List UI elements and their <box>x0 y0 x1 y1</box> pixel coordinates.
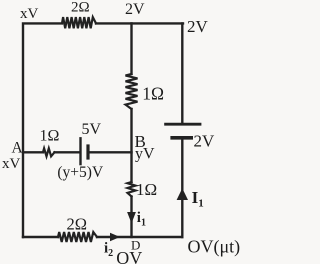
svg-text:2V: 2V <box>187 17 209 36</box>
wire bottom left segment <box>23 236 58 238</box>
battery B1 5V long plate <box>79 138 81 164</box>
wire right branch upper <box>181 23 183 122</box>
current arrow i2 <box>110 233 120 242</box>
resistor R3 1ohm A-B <box>43 148 55 156</box>
resistor R4 2ohm bottom <box>58 232 97 242</box>
svg-text:2Ω: 2Ω <box>71 0 90 16</box>
svg-text:A: A <box>12 139 24 156</box>
wire middle branch bottom <box>130 197 132 238</box>
svg-text:1Ω: 1Ω <box>136 180 157 199</box>
svg-text:xV: xV <box>2 156 21 172</box>
svg-text:OV(μt): OV(μt) <box>188 237 241 258</box>
svg-text:yV: yV <box>135 146 155 163</box>
svg-text:OV: OV <box>116 248 142 264</box>
svg-text:2V: 2V <box>194 132 216 151</box>
wire left side <box>23 23 62 237</box>
wire bottom right segment <box>97 236 182 238</box>
wire right branch lower <box>181 140 183 238</box>
svg-text:2Ω: 2Ω <box>67 214 88 233</box>
svg-text:5V: 5V <box>82 121 102 138</box>
current arrow i1 <box>127 212 136 223</box>
battery B2 2V long plate <box>166 123 200 126</box>
battery B2 2V short plate <box>172 136 191 140</box>
wire top-right segment <box>96 22 183 24</box>
resistor R1 2ohm top <box>62 17 96 28</box>
wire A-B left <box>23 151 43 153</box>
svg-text:xV: xV <box>20 6 39 22</box>
current arrow I1 <box>177 188 188 200</box>
wire middle branch top <box>130 23 132 74</box>
battery B1 5V short plate <box>86 146 89 158</box>
wire A-B middle <box>55 151 80 153</box>
wire middle branch B segment <box>130 109 132 182</box>
svg-text:2V: 2V <box>125 1 145 18</box>
svg-text:1Ω: 1Ω <box>40 128 60 145</box>
resistor R5 1ohm middle lower <box>128 182 136 197</box>
svg-text:1Ω: 1Ω <box>142 83 164 103</box>
resistor R2 1ohm middle upper <box>126 74 138 109</box>
svg-text:(y+5)V: (y+5)V <box>57 164 104 181</box>
wire A-B right <box>90 151 132 153</box>
